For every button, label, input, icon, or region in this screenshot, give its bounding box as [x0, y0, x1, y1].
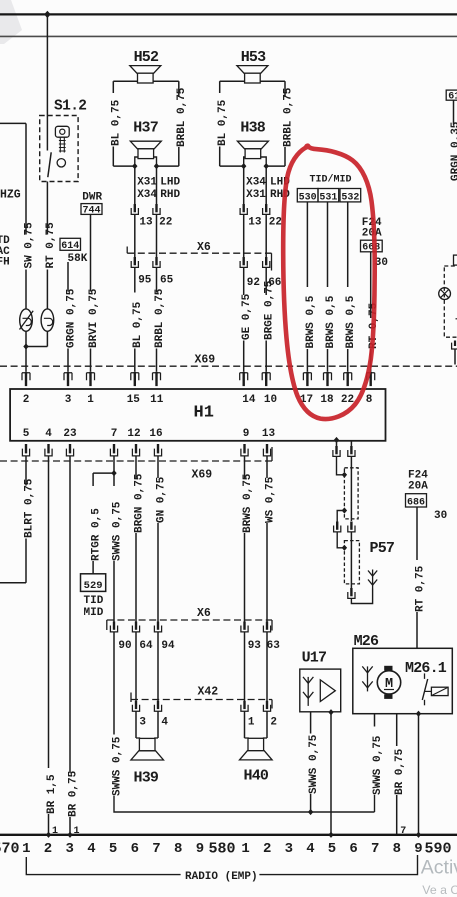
svg-text:X34: X34 [246, 177, 266, 189]
svg-text:BLRT 0,75: BLRT 0,75 [23, 478, 35, 538]
svg-text:95: 95 [138, 275, 152, 287]
svg-text:531: 531 [319, 192, 337, 203]
svg-text:RT 0,75: RT 0,75 [45, 222, 57, 269]
svg-text:4: 4 [45, 428, 52, 440]
svg-text:7: 7 [152, 841, 160, 857]
svg-text:22: 22 [159, 217, 172, 229]
svg-text:X69: X69 [192, 468, 213, 481]
svg-text:X42: X42 [198, 686, 219, 699]
svg-text:61: 61 [448, 91, 457, 102]
svg-text:2: 2 [44, 841, 52, 857]
svg-text:P57: P57 [370, 540, 395, 557]
svg-text:64: 64 [139, 640, 153, 652]
svg-text:6: 6 [349, 841, 357, 857]
svg-text:570: 570 [0, 840, 20, 857]
svg-text:BRGN 0,75: BRGN 0,75 [133, 473, 145, 533]
svg-text:RTGR 0,5: RTGR 0,5 [91, 508, 103, 561]
svg-text:BR 1,5: BR 1,5 [46, 774, 58, 814]
svg-text:58K: 58K [68, 253, 88, 265]
svg-text:8: 8 [174, 841, 182, 857]
svg-text:SWWS 0,75: SWWS 0,75 [111, 501, 123, 561]
svg-text:BRVI 0,75: BRVI 0,75 [88, 288, 100, 348]
svg-text:BR 0,75: BR 0,75 [67, 770, 79, 817]
svg-text:3: 3 [285, 841, 293, 857]
svg-text:SWWS 0,75: SWWS 0,75 [308, 734, 320, 794]
svg-text:63: 63 [267, 640, 281, 652]
svg-text:RHD: RHD [160, 189, 180, 201]
svg-text:92: 92 [247, 277, 260, 289]
svg-text:BRBL 0,75: BRBL 0,75 [154, 288, 166, 348]
svg-text:5: 5 [109, 841, 117, 857]
svg-text:530: 530 [299, 192, 317, 203]
svg-text:93: 93 [248, 640, 262, 652]
svg-text:9: 9 [414, 841, 422, 857]
svg-text:LHD: LHD [160, 177, 180, 189]
svg-text:9: 9 [196, 841, 204, 857]
svg-text:11: 11 [150, 394, 164, 406]
svg-text:4: 4 [87, 841, 95, 857]
svg-text:65: 65 [160, 275, 174, 287]
svg-text:614: 614 [61, 241, 79, 252]
svg-text:H40: H40 [244, 767, 269, 784]
svg-text:HZG: HZG [0, 188, 21, 201]
svg-text:BRWS 0,5: BRWS 0,5 [345, 295, 357, 348]
svg-text:1: 1 [241, 841, 249, 857]
svg-text:23: 23 [63, 428, 77, 440]
svg-text:7: 7 [371, 841, 379, 857]
svg-text:1: 1 [22, 841, 30, 857]
svg-text:SWWS 0,75: SWWS 0,75 [372, 735, 384, 795]
svg-text:TID/MID: TID/MID [310, 173, 352, 185]
svg-text:3: 3 [139, 717, 146, 729]
svg-text:16: 16 [149, 428, 162, 440]
svg-text:BR 0,75: BR 0,75 [394, 748, 406, 795]
svg-text:8: 8 [393, 841, 401, 857]
svg-text:94: 94 [161, 640, 175, 652]
svg-text:FH: FH [0, 256, 10, 268]
svg-text:529: 529 [84, 580, 103, 592]
svg-text:8: 8 [366, 394, 373, 406]
svg-text:580: 580 [209, 840, 236, 857]
svg-text:H1: H1 [194, 404, 214, 423]
svg-text:3: 3 [65, 394, 72, 406]
svg-text:X6: X6 [197, 241, 211, 254]
svg-text:M26.1: M26.1 [405, 660, 447, 677]
svg-text:X31: X31 [137, 177, 157, 189]
svg-text:DWR: DWR [82, 191, 102, 203]
svg-text:744: 744 [82, 205, 100, 216]
svg-text:H39: H39 [134, 769, 159, 786]
svg-text:20A: 20A [408, 481, 428, 493]
svg-text:14: 14 [242, 394, 256, 406]
svg-text:9: 9 [243, 428, 250, 440]
svg-text:BL 0,75: BL 0,75 [111, 99, 123, 146]
svg-text:7: 7 [111, 428, 118, 440]
svg-text:6: 6 [131, 841, 139, 857]
svg-text:H38: H38 [240, 120, 265, 137]
svg-text:1: 1 [87, 394, 94, 406]
svg-text:MID: MID [84, 607, 104, 619]
svg-text:BL 0,75: BL 0,75 [217, 99, 229, 146]
svg-text:BRBL 0,75: BRBL 0,75 [282, 87, 294, 147]
svg-text:BRBL 0,75: BRBL 0,75 [176, 87, 188, 147]
svg-text:Activa: Activa [421, 856, 457, 878]
svg-text:13: 13 [262, 428, 276, 440]
svg-text:90: 90 [118, 640, 131, 652]
svg-text:GN 0,75: GN 0,75 [155, 476, 167, 523]
svg-text:X69: X69 [195, 353, 216, 366]
svg-text:SW 0,75: SW 0,75 [23, 222, 35, 269]
svg-text:GE 0,75: GE 0,75 [241, 293, 253, 340]
svg-text:Ve a Co: Ve a Co [422, 883, 457, 897]
svg-text:12: 12 [127, 428, 140, 440]
svg-text:GRGN 0,35: GRGN 0,35 [450, 121, 457, 181]
svg-text:22: 22 [341, 394, 354, 406]
svg-text:BRWS 0,5: BRWS 0,5 [325, 295, 337, 348]
svg-text:532: 532 [341, 192, 359, 203]
svg-text:2: 2 [263, 841, 271, 857]
svg-text:U17: U17 [302, 650, 327, 667]
svg-text:TID: TID [84, 595, 104, 607]
svg-text:1: 1 [248, 717, 255, 729]
svg-text:BRWS 0,75: BRWS 0,75 [242, 473, 254, 533]
svg-text:RADIO (EMP): RADIO (EMP) [185, 871, 258, 883]
svg-text:10: 10 [264, 394, 277, 406]
svg-text:590: 590 [425, 840, 452, 857]
svg-text:15: 15 [127, 394, 141, 406]
svg-text:2: 2 [270, 717, 277, 729]
svg-text:22: 22 [269, 217, 282, 229]
svg-text:H37: H37 [133, 120, 158, 137]
svg-text:BRGE 0,75: BRGE 0,75 [264, 280, 276, 340]
svg-text:BL 0,75: BL 0,75 [132, 301, 144, 348]
svg-text:13: 13 [248, 217, 262, 229]
svg-text:GRGN 0,75: GRGN 0,75 [65, 288, 77, 348]
svg-text:WS 0,75: WS 0,75 [264, 476, 276, 523]
svg-text:5: 5 [23, 428, 30, 440]
svg-text:H52: H52 [134, 49, 159, 66]
svg-text:4: 4 [161, 717, 168, 729]
svg-text:RT 0,75: RT 0,75 [414, 565, 426, 612]
svg-text:M26: M26 [354, 633, 379, 650]
svg-text:2: 2 [23, 394, 30, 406]
svg-text:4: 4 [306, 841, 314, 857]
svg-text:30: 30 [434, 510, 447, 522]
svg-text:X34: X34 [137, 189, 157, 201]
svg-text:H53: H53 [241, 49, 266, 66]
svg-text:BRWS 0,5: BRWS 0,5 [305, 295, 317, 348]
svg-text:5: 5 [328, 841, 336, 857]
svg-text:3: 3 [65, 841, 73, 857]
svg-text:X6: X6 [197, 607, 211, 620]
svg-text:18: 18 [320, 394, 334, 406]
svg-text:SWWS 0,75: SWWS 0,75 [111, 736, 123, 796]
svg-text:X31: X31 [246, 189, 266, 201]
svg-text:S1.2: S1.2 [54, 99, 86, 115]
svg-text:13: 13 [139, 217, 153, 229]
svg-text:686: 686 [407, 497, 425, 508]
